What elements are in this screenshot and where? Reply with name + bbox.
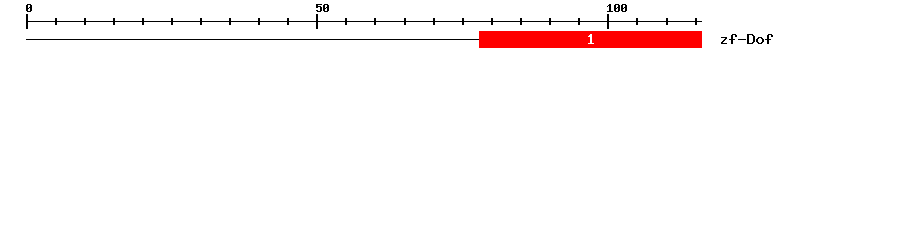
minor tick 7 [229,18,231,25]
minor tick 20 [666,18,668,25]
minor tick 17 [549,18,551,25]
minor tick 2 [84,18,86,25]
minor tick 13 [433,18,435,25]
major tick 100 [607,14,609,29]
minor tick 16 [520,18,522,25]
ruler label 0 [26,4,32,12]
domain box zf-Dof (red) [479,31,702,48]
minor tick 11 [374,18,376,25]
minor tick 9 [287,18,289,25]
minor tick 1 [55,18,57,25]
minor tick 3 [113,18,115,25]
domain index 1 (white) [588,34,594,44]
minor tick 6 [200,18,202,25]
minor tick 21 [695,18,697,25]
minor tick 5 [171,18,173,25]
minor tick 19 [636,18,638,25]
minor tick 10 [345,18,347,25]
ruler label 100 [607,4,627,12]
minor tick 4 [142,18,144,25]
ruler label 50 [316,4,329,12]
major tick 50 [316,14,318,29]
minor tick 8 [258,18,260,25]
ruler axis line [26,21,702,22]
protein backbone line [26,39,479,40]
domain name label zf-Dof [721,34,773,44]
minor tick 18 [578,18,580,25]
minor tick 15 [491,18,493,25]
minor tick 14 [462,18,464,25]
minor tick 12 [404,18,406,25]
major tick 0 [26,14,28,29]
